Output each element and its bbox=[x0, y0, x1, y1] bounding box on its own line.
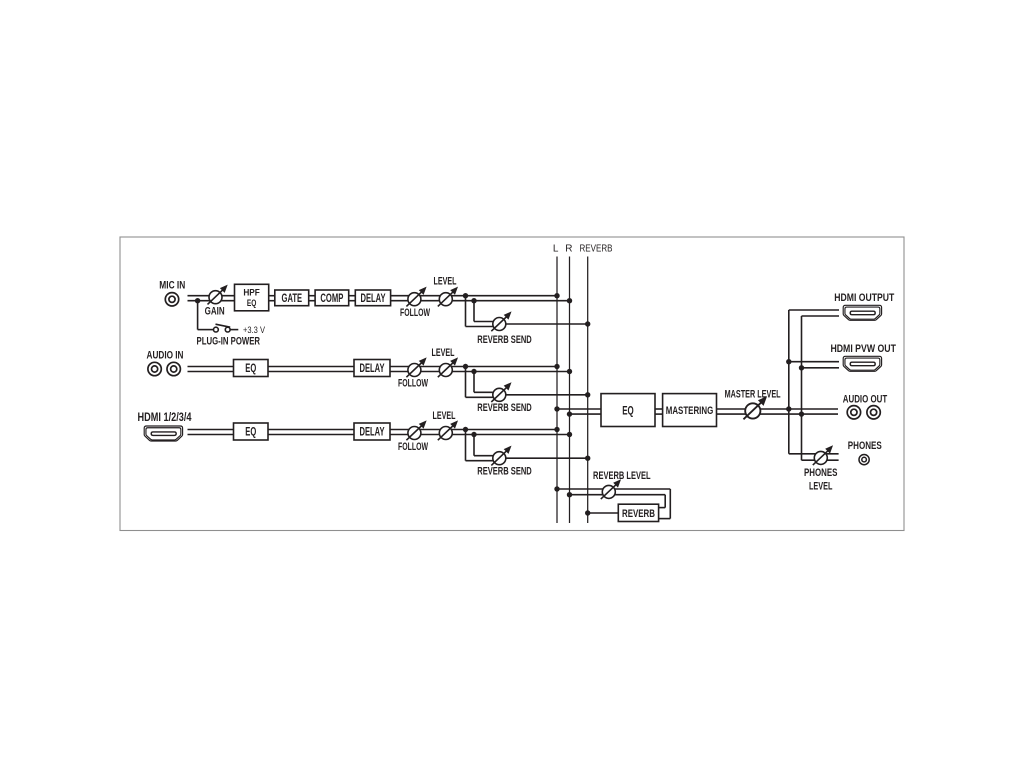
knob REVERB SEND hdmi bbox=[491, 447, 510, 466]
junction PVW upper bbox=[786, 359, 791, 364]
wire to phones lower bbox=[802, 459, 839, 461]
box HPF EQ U-mic1 bbox=[235, 284, 269, 311]
wire mic send to REVERB bus bbox=[506, 323, 588, 325]
connector HDMI input bbox=[144, 426, 182, 441]
svg-text:GAIN: GAIN bbox=[205, 306, 225, 318]
svg-text:R: R bbox=[565, 244, 572, 255]
jack PHONES bbox=[859, 455, 869, 465]
junction REVERB bus to reverb box bbox=[585, 510, 590, 515]
knob LEVEL hdmi bbox=[438, 422, 457, 441]
junction hdmi send L bbox=[463, 427, 468, 432]
svg-text:EQ: EQ bbox=[247, 298, 257, 309]
junction mic send L bbox=[463, 293, 468, 298]
wire mastering lower to audio out bbox=[717, 413, 839, 415]
junction reverb return R bus bbox=[567, 492, 572, 497]
junction plug-in power tap bbox=[195, 298, 200, 303]
wire REVERB bus to reverb box bbox=[588, 512, 619, 514]
wire AUDIO IN to EQ bbox=[188, 367, 234, 372]
jack AUDIO OUT left bbox=[847, 406, 860, 419]
wire hdmi lower to R bus bbox=[390, 434, 570, 436]
junction reverb return L bus bbox=[554, 486, 559, 491]
svg-text:LEVEL: LEVEL bbox=[434, 276, 457, 288]
wire audio send to REVERB bus bbox=[506, 394, 588, 396]
wire hdmi send lower into knob bbox=[466, 460, 500, 462]
svg-text:AUDIO OUT: AUDIO OUT bbox=[843, 394, 888, 406]
wire audio lower to R bus bbox=[390, 371, 570, 373]
wire to HDMI PVW upper bbox=[789, 361, 839, 363]
svg-text:FOLLOW: FOLLOW bbox=[398, 441, 428, 453]
junction L bus to master EQ bbox=[554, 406, 559, 411]
wire audio send lower into knob bbox=[466, 396, 500, 398]
svg-text:LEVEL: LEVEL bbox=[433, 410, 456, 422]
jack AUDIO OUT right bbox=[867, 406, 880, 419]
wire plug-in power horizontal bbox=[198, 329, 214, 331]
jack AUDIO IN left bbox=[148, 362, 161, 375]
svg-text:EQ: EQ bbox=[245, 427, 256, 439]
wire reverb return lower bbox=[570, 494, 666, 496]
svg-text:DELAY: DELAY bbox=[360, 427, 385, 439]
switch plug-in power contact right bbox=[225, 327, 230, 332]
wire to HDMI PVW lower bbox=[802, 367, 840, 369]
svg-text:+3.3 V: +3.3 V bbox=[243, 325, 265, 335]
box DELAY mic bbox=[355, 290, 390, 306]
svg-text:LEVEL: LEVEL bbox=[809, 480, 833, 492]
wire switch to +3.3V bbox=[230, 329, 238, 331]
svg-text:REVERB SEND: REVERB SEND bbox=[477, 402, 532, 414]
diagram outer border frame bbox=[120, 237, 904, 531]
wire audio send drop right bbox=[473, 372, 475, 393]
knob REVERB SEND mic bbox=[491, 313, 510, 332]
connector HDMI OUTPUT bbox=[843, 305, 881, 320]
junction hdmi on L bus bbox=[554, 427, 559, 432]
wire to HDMI OUTPUT upper bbox=[789, 309, 839, 311]
wire HDMI IN to EQ bbox=[188, 430, 234, 435]
junction audio send on REVERB bus bbox=[585, 392, 590, 397]
wire to phones upper bbox=[789, 453, 839, 455]
wire mic upper to L bus bbox=[391, 295, 557, 297]
svg-text:REVERB SEND: REVERB SEND bbox=[477, 334, 532, 346]
box EQ audio-in bbox=[234, 360, 269, 377]
knob GAIN bbox=[208, 286, 227, 305]
wire L bus to master EQ bbox=[557, 408, 601, 410]
wire R bus to master EQ bbox=[570, 413, 602, 415]
svg-text:MASTERING: MASTERING bbox=[666, 405, 714, 417]
junction hdmi on R bus bbox=[567, 432, 572, 437]
svg-text:HDMI PVW OUT: HDMI PVW OUT bbox=[830, 343, 896, 355]
wire mic send lower into knob bbox=[466, 326, 500, 328]
wire plug-in power drop bbox=[197, 301, 199, 330]
junction hdmi send R bbox=[471, 432, 476, 437]
junction mic on L bus bbox=[554, 293, 559, 298]
box GATE bbox=[275, 290, 309, 306]
junction output branch lower bbox=[799, 411, 804, 416]
knob LEVEL mic bbox=[438, 288, 457, 307]
wire EQ to MASTERING bbox=[655, 409, 663, 414]
svg-text:COMP: COMP bbox=[320, 293, 343, 305]
junction mic send R bbox=[471, 298, 476, 303]
svg-text:L: L bbox=[553, 244, 559, 255]
svg-text:EQ: EQ bbox=[245, 363, 256, 375]
wire mic send drop right bbox=[473, 301, 475, 322]
wire HPF EQ to GATE bbox=[269, 296, 275, 301]
box COMP bbox=[315, 290, 349, 306]
svg-text:DELAY: DELAY bbox=[361, 293, 386, 305]
svg-text:PLUG-IN POWER: PLUG-IN POWER bbox=[197, 335, 261, 347]
wire EQ to DELAY audio-in bbox=[268, 367, 354, 372]
wire reverb return upper bbox=[557, 488, 670, 490]
knob LEVEL audio bbox=[438, 359, 457, 378]
wire GATE to COMP bbox=[309, 296, 315, 301]
jack MIC IN bbox=[165, 293, 178, 306]
wire to HDMI OUTPUT lower bbox=[802, 315, 840, 317]
wire output branch vertical left bbox=[788, 310, 790, 454]
box master EQ bbox=[601, 394, 655, 427]
junction PVW lower bbox=[799, 365, 804, 370]
knob REVERB SEND audio bbox=[491, 384, 510, 403]
junction hdmi send on REVERB bus bbox=[585, 456, 590, 461]
box EQ hdmi bbox=[234, 423, 269, 440]
svg-text:MASTER LEVEL: MASTER LEVEL bbox=[725, 388, 781, 400]
svg-text:LEVEL: LEVEL bbox=[432, 347, 455, 359]
junction audio on R bus bbox=[567, 369, 572, 374]
wire mic lower to R bus bbox=[391, 300, 570, 302]
knob REVERB LEVEL bbox=[601, 481, 620, 500]
box DELAY audio-in bbox=[354, 360, 390, 377]
switch plug-in power lever bbox=[216, 324, 231, 327]
wire audio send drop left bbox=[465, 367, 467, 398]
junction audio send L bbox=[463, 364, 468, 369]
wire MIC IN to HPF EQ bbox=[188, 296, 235, 301]
knob PHONES LEVEL bbox=[813, 447, 832, 466]
svg-text:REVERB LEVEL: REVERB LEVEL bbox=[593, 470, 651, 482]
svg-text:REVERB SEND: REVERB SEND bbox=[477, 465, 532, 477]
svg-text:FOLLOW: FOLLOW bbox=[398, 378, 428, 390]
wire mic send drop left bbox=[465, 296, 467, 327]
wire COMP to DELAY mic bbox=[349, 296, 356, 301]
wire hdmi send drop left bbox=[465, 430, 467, 461]
knob MASTER LEVEL bbox=[743, 398, 765, 420]
wire hdmi upper to L bus bbox=[390, 429, 557, 431]
box REVERB bbox=[618, 504, 658, 521]
wire audio upper to L bus bbox=[390, 366, 557, 368]
svg-text:PHONES: PHONES bbox=[848, 440, 882, 452]
wire reverb loop outer horizontal bbox=[659, 518, 671, 520]
wire hdmi send to REVERB bus bbox=[506, 457, 588, 459]
svg-text:PHONES: PHONES bbox=[804, 467, 838, 479]
box DELAY hdmi bbox=[354, 423, 390, 440]
svg-text:AUDIO IN: AUDIO IN bbox=[147, 350, 184, 362]
wire audio send upper into knob bbox=[474, 391, 499, 393]
junction R bus to master EQ bbox=[567, 411, 572, 416]
jack AUDIO IN right bbox=[167, 362, 180, 375]
svg-text:REVERB: REVERB bbox=[622, 508, 655, 520]
svg-text:EQ: EQ bbox=[622, 403, 634, 417]
wire reverb loop inner vertical bbox=[664, 495, 666, 508]
switch plug-in power contact left bbox=[214, 327, 219, 332]
bus R vertical line bbox=[569, 257, 571, 524]
connector HDMI PVW OUT bbox=[843, 356, 881, 371]
junction mic on R bus bbox=[567, 298, 572, 303]
junction audio on L bus bbox=[554, 364, 559, 369]
svg-text:GATE: GATE bbox=[282, 293, 303, 305]
svg-text:REVERB: REVERB bbox=[580, 244, 613, 255]
svg-text:DELAY: DELAY bbox=[360, 363, 385, 375]
bus L vertical line bbox=[556, 257, 558, 524]
bus REVERB vertical line bbox=[587, 257, 589, 524]
svg-text:HDMI OUTPUT: HDMI OUTPUT bbox=[834, 292, 894, 304]
knob FOLLOW audio bbox=[406, 359, 425, 378]
wire EQ to DELAY hdmi bbox=[268, 430, 354, 435]
knob FOLLOW hdmi bbox=[406, 422, 425, 441]
wire hdmi send drop right bbox=[473, 435, 475, 456]
junction mic send on REVERB bus bbox=[585, 321, 590, 326]
svg-text:HDMI 1/2/3/4: HDMI 1/2/3/4 bbox=[138, 412, 192, 424]
wire hdmi send upper into knob bbox=[474, 455, 499, 457]
wire reverb loop inner horizontal bbox=[659, 507, 666, 509]
svg-text:MIC IN: MIC IN bbox=[159, 280, 185, 292]
knob FOLLOW mic bbox=[406, 288, 425, 307]
junction output branch upper bbox=[786, 406, 791, 411]
junction audio send R bbox=[471, 369, 476, 374]
box MASTERING bbox=[663, 394, 717, 427]
wire reverb loop outer vertical bbox=[669, 489, 671, 519]
wire output branch vertical right bbox=[801, 316, 803, 460]
wire mastering upper to audio out bbox=[717, 408, 839, 410]
svg-text:FOLLOW: FOLLOW bbox=[400, 307, 430, 319]
wire mic send upper into knob bbox=[474, 321, 499, 323]
